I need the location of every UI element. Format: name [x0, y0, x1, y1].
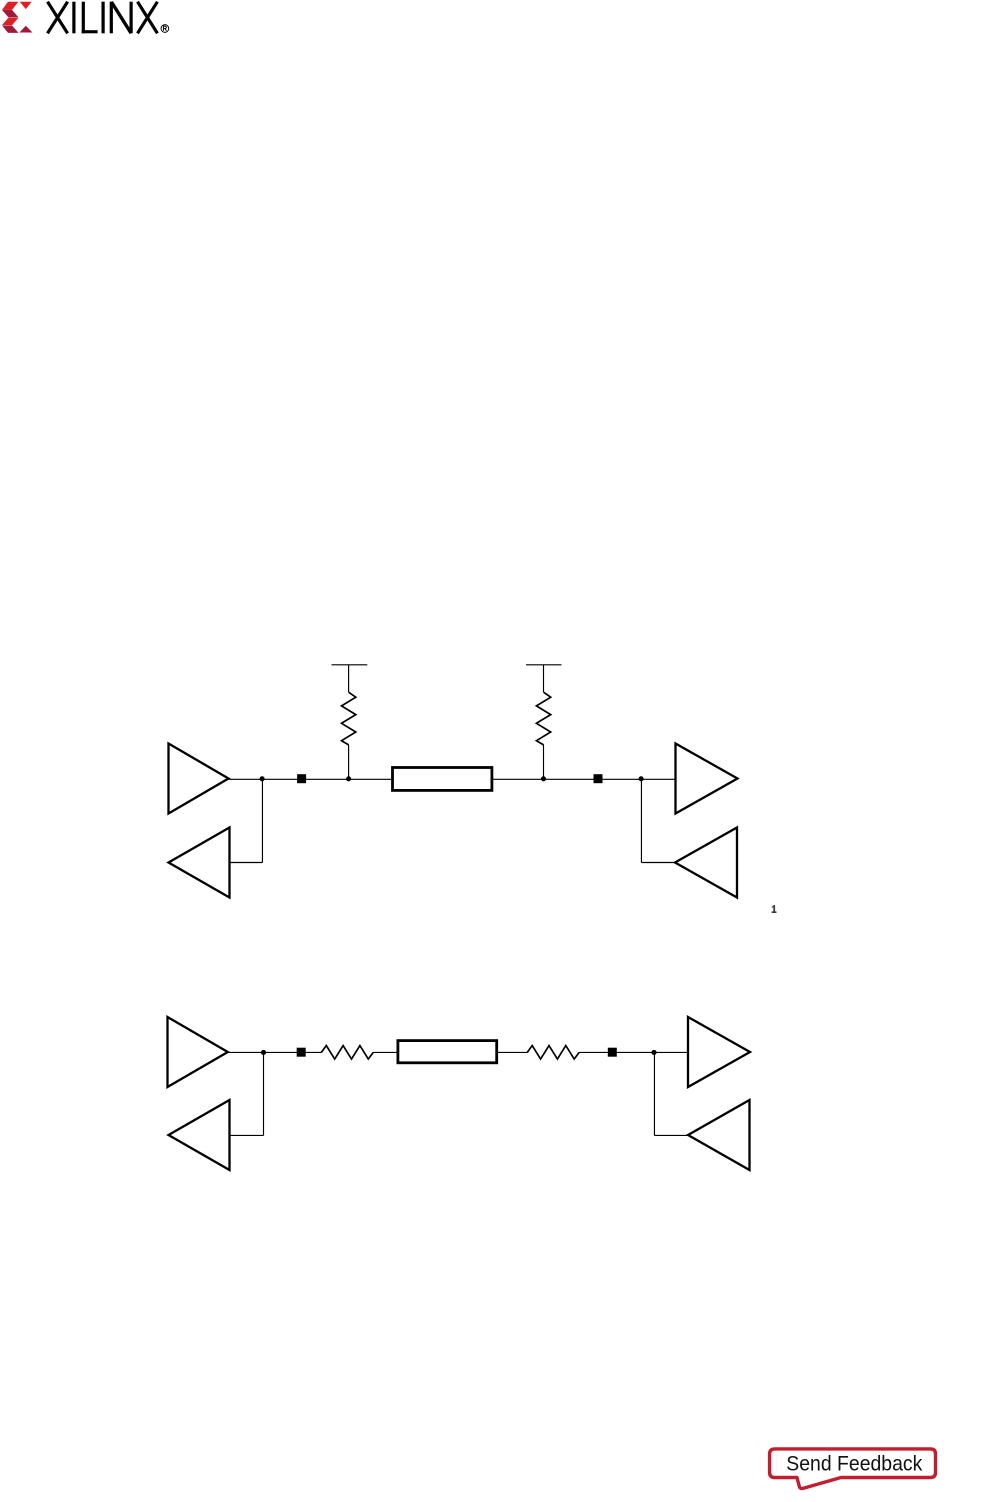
- svg-text:Send Feedback: Send Feedback: [786, 1453, 923, 1476]
